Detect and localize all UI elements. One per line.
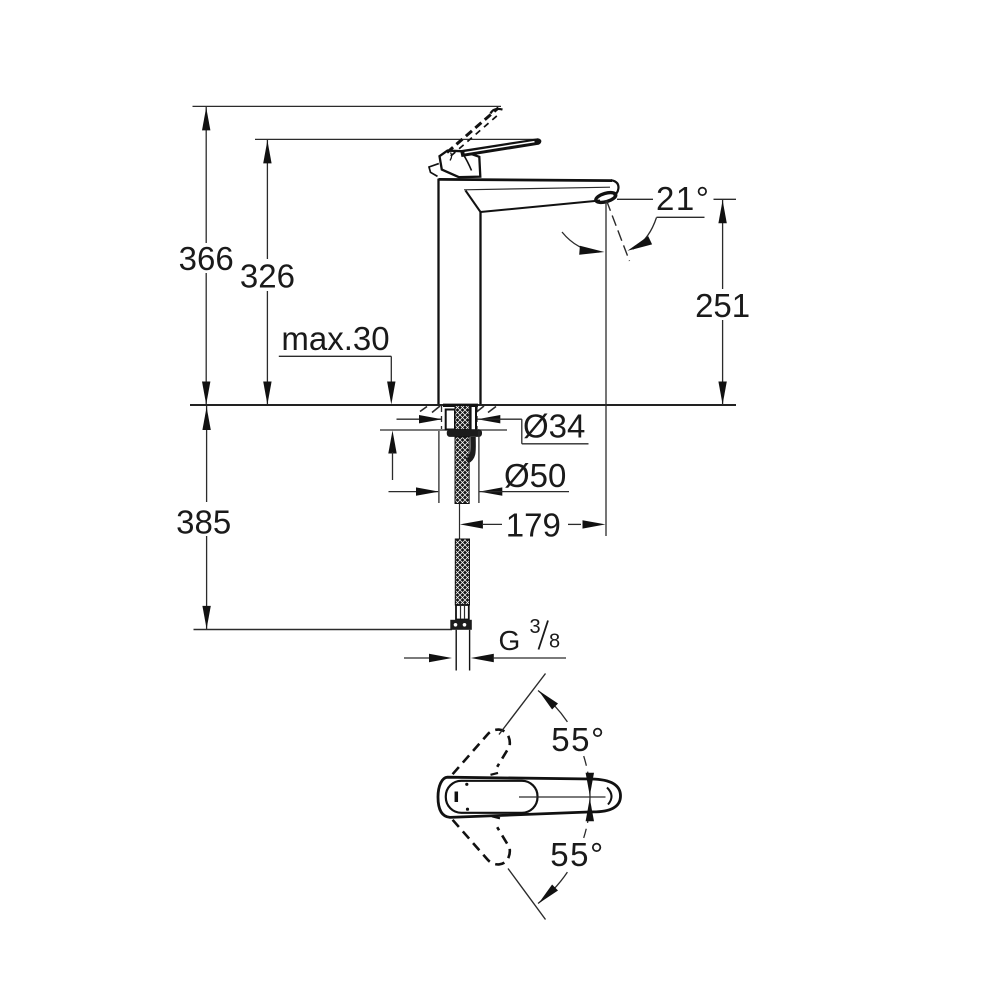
svg-text:385: 385 [176,504,231,541]
tilted water stream dashed line (21 deg) [607,201,630,262]
svg-text:Ø50: Ø50 [504,457,566,494]
dimension 251 vertical line [722,199,724,289]
55 deg reference line bottom [508,869,546,920]
handle left tab [429,164,439,177]
handle dome base [440,151,481,178]
flexible connection hose (hatched) [455,539,469,605]
hose nut [450,620,472,630]
spout tip curl [611,180,618,195]
top view: dash ticks near edges [491,773,499,775]
extension lines for diameter 50 [438,431,440,503]
21-degree left arc arrow [562,232,599,252]
svg-text:max.30: max.30 [281,320,389,357]
deck / counter top line [190,404,736,406]
55 deg reference line top [499,674,546,735]
dashed raised lever (open position) [447,108,499,153]
max.30 leader drop with arrow to deck top [390,356,392,384]
max.30 lower arrow at deck underside [388,431,396,454]
centerline below stud [459,504,461,540]
55 deg arc top [538,691,567,722]
right hose tube in hole [470,407,472,430]
spout chin [466,191,481,213]
dashed lever tip hook [491,109,503,114]
solid lever handle [460,138,541,157]
top view: handle outer outline [438,777,621,817]
svg-text:21°: 21° [656,180,710,217]
horseshoe mounting nut [447,429,482,437]
dashed lever rotated down 55 [453,820,510,865]
top view: grip tick mark [455,792,459,803]
svg-text:251: 251 [695,287,750,324]
21-degree leader line from aerator [617,198,653,200]
handle dome small curl [450,153,452,161]
connector tube G3/8 [455,630,457,671]
hose end reference line (385 bottom) [194,629,453,631]
spout inner top line [464,187,610,190]
aerator at spout tip [595,191,617,205]
dashed lever rotated up 55 [453,730,510,775]
reference line: top of solid lever (326 ref) [255,138,540,140]
svg-text:8: 8 [549,631,560,653]
dimension 366 vertical line [205,106,207,243]
dimension G3/8 [404,657,430,659]
svg-text:Ø34: Ø34 [523,408,585,445]
21-degree right arc arrow [633,218,657,250]
faucet column right edge [479,212,481,404]
mounting shank through deck: left nut [446,410,455,430]
svg-text:179: 179 [506,507,561,544]
svg-text:3: 3 [530,616,541,638]
vertical water stream line [605,201,607,537]
svg-text:55°: 55° [551,721,605,758]
bent hose end behind stud [467,437,473,461]
reference line: top of raised lever (366 ref) [193,105,502,107]
dimension diameter 34 [397,418,442,420]
top view: lever inner outline [446,781,538,813]
svg-text:G: G [499,625,521,656]
dimension 326 vertical line [266,139,268,259]
faucet column left edge [437,179,439,404]
spout top edge [439,179,613,180]
deck break marks [420,407,427,412]
dimension diameter 50 [389,491,439,493]
svg-text:326: 326 [240,258,295,295]
svg-text:366: 366 [179,240,234,277]
hose crimp sleeve [456,605,469,620]
faucet base seam on deck [443,404,478,407]
svg-text:55°: 55° [550,836,604,873]
spout underside [481,201,601,213]
dimension 179 [460,520,483,528]
max.30 leader underline [279,355,392,357]
deck hole dashed edges [441,406,443,429]
threaded stud below nut (hatched) [455,437,469,504]
threaded stud (hatched) through deck [455,406,469,430]
55 deg arc bottom [584,797,590,838]
top view: cap inner arc [607,788,612,805]
dimension 385 vertical line [206,406,208,502]
handle dome inner curve [464,155,472,171]
top view: centerline [519,796,606,798]
deck underside line [380,429,507,431]
21-degree label underline [657,216,705,218]
